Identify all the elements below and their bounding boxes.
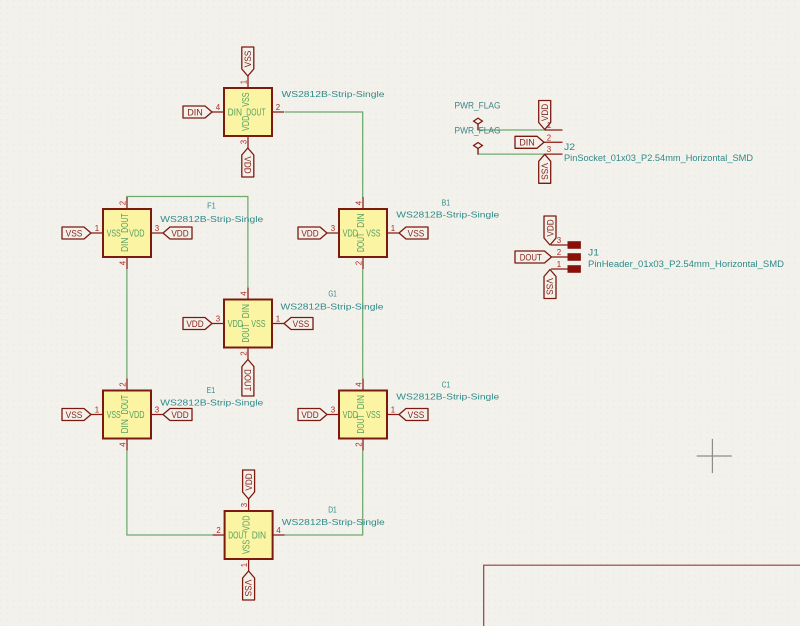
svg-text:E1: E1 <box>207 385 216 395</box>
svg-text:VDD: VDD <box>171 409 188 420</box>
svg-text:C1: C1 <box>442 380 451 390</box>
svg-text:2: 2 <box>216 526 220 535</box>
global label VDD <box>242 148 254 177</box>
svg-text:VDD: VDD <box>242 516 253 531</box>
pin 2 (DOUT) right of A1 <box>246 103 284 119</box>
svg-text:1: 1 <box>391 224 395 233</box>
wire C1 DOUT to D1 DIN <box>285 451 363 535</box>
svg-text:B1: B1 <box>442 198 451 208</box>
svg-text:PWR_FLAG: PWR_FLAG <box>455 125 501 135</box>
svg-text:VSS: VSS <box>242 51 253 68</box>
svg-text:DOUT: DOUT <box>120 395 131 414</box>
svg-text:DOUT: DOUT <box>520 251 542 262</box>
svg-text:VDD: VDD <box>186 318 203 329</box>
LED D1 WS2812B-Strip-Single <box>213 499 385 571</box>
svg-text:DOUT: DOUT <box>356 233 367 252</box>
LED C1 WS2812B-Strip-Single <box>327 379 500 451</box>
pin 2 (DOUT) bottom of G1 <box>239 323 252 359</box>
svg-text:DIN: DIN <box>187 106 203 117</box>
svg-text:3: 3 <box>239 139 248 144</box>
svg-text:VDD: VDD <box>539 104 550 121</box>
svg-text:VSS: VSS <box>107 410 122 421</box>
svg-text:VSS: VSS <box>66 409 83 420</box>
svg-text:VSS: VSS <box>366 229 381 240</box>
svg-text:4: 4 <box>354 200 363 205</box>
body C1 <box>339 391 387 439</box>
global label VSS <box>539 154 551 183</box>
global label DOUT <box>242 360 254 397</box>
LED F1 WS2812B-Strip-Single <box>91 197 264 269</box>
svg-text:1: 1 <box>95 224 99 233</box>
global label VSS <box>62 227 91 239</box>
body G1 <box>224 300 272 348</box>
global label VSS <box>62 409 91 421</box>
svg-text:DOUT: DOUT <box>356 414 367 433</box>
svg-text:3: 3 <box>557 236 562 245</box>
wire PWR_FLAG to J2 pin 1 (VDD) <box>478 124 546 130</box>
pin 3 of J1 <box>551 236 580 248</box>
svg-text:WS2812B-Strip-Single: WS2812B-Strip-Single <box>282 517 385 527</box>
global label DIN <box>515 136 544 148</box>
connector J1 PinHeader_01x03 <box>551 236 784 272</box>
wire E1 DOUT to F1 DIN <box>126 269 128 378</box>
wire A1 DOUT to B1 DIN <box>285 112 363 197</box>
pin 4 (DIN) bottom of F1 <box>118 238 131 269</box>
connector J2 PinSocket_01x03 <box>544 121 753 163</box>
svg-text:2: 2 <box>118 382 127 386</box>
svg-text:WS2812B-Strip-Single: WS2812B-Strip-Single <box>160 214 263 224</box>
svg-text:G1: G1 <box>328 289 337 299</box>
pin 3 (VDD) right of F1 <box>129 224 163 240</box>
svg-text:VSS: VSS <box>539 163 550 180</box>
svg-text:J1: J1 <box>588 247 599 258</box>
svg-text:2: 2 <box>118 201 127 205</box>
pin 4 (DIN) top of G1 <box>239 288 252 319</box>
global label VSS <box>243 571 255 600</box>
pin 1 (VSS) right of B1 <box>366 224 399 240</box>
sheet border corner <box>484 565 800 626</box>
pin 4 (DIN) top of B1 <box>354 197 367 228</box>
svg-text:3: 3 <box>331 406 336 415</box>
svg-text:VSS: VSS <box>545 278 556 295</box>
svg-text:DIN: DIN <box>228 108 242 119</box>
svg-text:WS2812B-Strip-Single: WS2812B-Strip-Single <box>281 301 384 311</box>
wire D1 DOUT to E1 DIN <box>127 451 213 535</box>
svg-text:DIN: DIN <box>252 531 266 542</box>
global label VDD <box>183 318 212 330</box>
svg-text:PinHeader_01x03_P2.54mm_Horizo: PinHeader_01x03_P2.54mm_Horizontal_SMD <box>588 259 784 269</box>
svg-text:VDD: VDD <box>242 156 253 173</box>
global label DOUT <box>515 251 552 263</box>
svg-text:VSS: VSS <box>243 580 254 597</box>
svg-text:4: 4 <box>216 103 221 112</box>
pin 3 (VDD) bottom of A1 <box>239 116 252 148</box>
body E1 <box>103 391 151 439</box>
LED B1 WS2812B-Strip-Single <box>327 197 500 269</box>
pin 4 (DIN) top of C1 <box>354 379 367 410</box>
svg-text:VDD: VDD <box>243 473 254 490</box>
svg-text:1: 1 <box>557 260 561 269</box>
pin 1 (VSS) bottom of D1 <box>240 539 253 571</box>
svg-text:DIN: DIN <box>120 419 131 433</box>
pin 3 (VDD) left of G1 <box>212 315 243 331</box>
svg-text:DIN: DIN <box>356 214 367 228</box>
svg-text:3: 3 <box>331 224 336 233</box>
svg-text:WS2812B-Strip-Single: WS2812B-Strip-Single <box>396 392 499 402</box>
body F1 <box>103 209 151 257</box>
svg-text:VDD: VDD <box>544 219 555 236</box>
svg-text:2: 2 <box>354 261 363 265</box>
svg-text:VSS: VSS <box>366 410 381 421</box>
pin 1 (VSS) right of C1 <box>366 406 399 422</box>
global label VSS <box>399 227 428 239</box>
pin 1 (VSS) left of E1 <box>91 406 121 422</box>
svg-text:VSS: VSS <box>408 227 425 238</box>
pin 2 (DOUT) top of F1 <box>118 197 131 233</box>
svg-text:VSS: VSS <box>293 318 310 329</box>
svg-text:1: 1 <box>240 563 249 567</box>
svg-text:VSS: VSS <box>241 92 252 107</box>
svg-text:2: 2 <box>354 442 363 446</box>
svg-text:4: 4 <box>118 260 127 265</box>
svg-text:1: 1 <box>239 80 248 84</box>
svg-text:DOUT: DOUT <box>241 323 252 342</box>
svg-text:3: 3 <box>547 145 552 154</box>
svg-text:J2: J2 <box>564 141 575 152</box>
svg-text:WS2812B-Strip-Single: WS2812B-Strip-Single <box>282 89 385 99</box>
svg-text:WS2812B-Strip-Single: WS2812B-Strip-Single <box>396 209 499 219</box>
svg-text:2: 2 <box>239 351 248 355</box>
svg-text:DIN: DIN <box>241 304 252 318</box>
global label VSS <box>284 318 313 330</box>
pin 2 (DOUT) bottom of C1 <box>354 414 367 450</box>
svg-text:3: 3 <box>216 315 221 324</box>
svg-text:1: 1 <box>276 315 280 324</box>
power flag PWR_FLAG #2 <box>455 125 501 154</box>
LED A1 WS2812B-Strip-Single <box>212 76 385 148</box>
svg-text:WS2812B-Strip-Single: WS2812B-Strip-Single <box>160 398 263 408</box>
wire PWR_FLAG to J2 pin 3 (VSS) <box>478 149 546 155</box>
svg-text:4: 4 <box>354 382 363 387</box>
pin 4 (DIN) right of D1 <box>252 526 285 542</box>
svg-text:DOUT: DOUT <box>120 213 131 232</box>
svg-text:VSS: VSS <box>251 319 266 330</box>
body B1 <box>339 209 387 257</box>
svg-text:DIN: DIN <box>519 137 535 148</box>
global label VDD <box>163 409 192 421</box>
svg-text:2: 2 <box>547 133 551 142</box>
svg-text:3: 3 <box>155 224 160 233</box>
svg-text:2: 2 <box>276 103 280 112</box>
svg-text:DIN: DIN <box>356 395 367 409</box>
svg-text:VSS: VSS <box>408 409 425 420</box>
svg-text:DIN: DIN <box>120 238 131 252</box>
pin 2 (DOUT) top of E1 <box>118 379 131 415</box>
svg-text:4: 4 <box>118 442 127 447</box>
wire B1 DOUT to C1 DIN <box>362 269 364 378</box>
pin 3 (VDD) top of D1 <box>240 499 253 531</box>
svg-text:VDD: VDD <box>241 116 252 131</box>
pin J2.2 <box>544 141 563 143</box>
global label VDD <box>298 409 327 421</box>
pin 1 of J1 <box>551 260 580 272</box>
global label VDD <box>298 227 327 239</box>
global label DIN <box>183 106 212 118</box>
pin 3 (VDD) left of B1 <box>327 224 358 240</box>
pin 1 (VSS) left of F1 <box>91 224 121 240</box>
global label VDD <box>163 227 192 239</box>
svg-text:DOUT: DOUT <box>243 369 254 391</box>
global label VDD <box>539 101 551 130</box>
svg-text:4: 4 <box>239 291 248 296</box>
svg-text:PWR_FLAG: PWR_FLAG <box>455 100 501 110</box>
svg-text:1: 1 <box>391 406 395 415</box>
svg-text:VDD: VDD <box>129 410 144 421</box>
svg-text:2: 2 <box>557 248 561 257</box>
svg-text:1: 1 <box>95 406 99 415</box>
pin 3 (VDD) right of E1 <box>129 406 163 422</box>
body A1 <box>224 88 272 136</box>
global label VSS <box>544 270 556 299</box>
global label VSS <box>399 409 428 421</box>
global label VDD <box>544 216 556 245</box>
svg-text:VDD: VDD <box>171 227 188 238</box>
svg-text:VSS: VSS <box>242 539 253 554</box>
svg-text:VSS: VSS <box>66 227 83 238</box>
LED E1 WS2812B-Strip-Single <box>91 379 264 451</box>
svg-text:3: 3 <box>155 406 160 415</box>
pin 1 (VSS) top of A1 <box>239 76 252 107</box>
svg-text:4: 4 <box>276 526 281 535</box>
pin 2 (DOUT) bottom of B1 <box>354 233 367 269</box>
svg-text:VSS: VSS <box>107 229 122 240</box>
svg-text:D1: D1 <box>328 505 337 515</box>
svg-text:3: 3 <box>240 502 249 507</box>
pin J2.3 <box>545 153 563 155</box>
svg-text:VDD: VDD <box>301 227 318 238</box>
pin 1 (VSS) right of G1 <box>251 315 284 331</box>
svg-text:VDD: VDD <box>301 409 318 420</box>
global label VDD <box>243 470 255 499</box>
LED G1 WS2812B-Strip-Single <box>212 288 384 360</box>
global label VSS <box>242 47 254 76</box>
pin J2.1 <box>545 129 563 131</box>
pin 2 (DOUT) left of D1 <box>213 526 248 542</box>
svg-text:VDD: VDD <box>129 229 144 240</box>
cursor crosshair <box>697 439 732 473</box>
svg-text:F1: F1 <box>207 200 216 210</box>
body D1 <box>225 511 273 559</box>
pin 4 (DIN) left of A1 <box>212 103 242 119</box>
svg-text:PinSocket_01x03_P2.54mm_Horizo: PinSocket_01x03_P2.54mm_Horizontal_SMD <box>564 153 753 163</box>
power flag PWR_FLAG #1 <box>455 100 501 130</box>
wire F1 DOUT to G1 DIN <box>127 197 248 288</box>
pin 4 (DIN) bottom of E1 <box>118 419 131 450</box>
pin 2 of J1 <box>551 248 580 260</box>
pin 3 (VDD) left of C1 <box>327 406 358 422</box>
